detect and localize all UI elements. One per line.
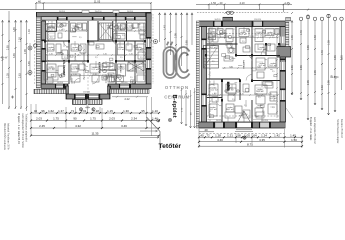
right column circles — [299, 14, 343, 20]
svg-text:2,5: 2,5 — [52, 69, 55, 71]
svg-text:12,5 m2: 12,5 m2 — [71, 69, 79, 71]
svg-text:nettó alapterület 55,04 m2: nettó alapterület 55,04 m2 — [313, 117, 316, 144]
svg-text:OTTHON: OTTHON — [165, 85, 189, 90]
ticks row y=120.5 — [30, 120, 160, 122]
svg-text:95: 95 — [141, 109, 145, 113]
twin washbasins left plan — [112, 76, 124, 82]
svg-text:1,20: 1,20 — [118, 29, 122, 31]
left plan bathroom fixtures center-bottom — [101, 64, 115, 83]
svg-text:2.85: 2.85 — [7, 45, 10, 50]
left plan top insulation hatch band — [36, 12, 151, 16]
drain symbol near corner — [168, 118, 171, 121]
svg-text:1.05: 1.05 — [244, 133, 250, 137]
svg-text:MEGJEGYZÉS szerkezetek: MEGJEGYZÉS szerkezetek — [3, 123, 6, 150]
svg-text:90/150: 90/150 — [59, 11, 65, 13]
right rows connecting verticals — [199, 129, 302, 148]
svg-text:1.62: 1.62 — [48, 109, 54, 113]
svg-text:1.37: 1.37 — [58, 109, 64, 113]
svg-text:3.65: 3.65 — [13, 53, 16, 58]
right plan counter strip — [208, 29, 280, 120]
left plan kitchen counter strip — [46, 23, 145, 81]
left plan furniture inner details — [47, 27, 145, 76]
left plan extra fixtures — [61, 25, 113, 77]
svg-text:NAPPALI: NAPPALI — [119, 64, 122, 73]
svg-text:2,5: 2,5 — [272, 71, 275, 73]
svg-text:1.18: 1.18 — [93, 109, 99, 113]
svg-text:150/240: 150/240 — [121, 82, 128, 84]
svg-text:10,2 m2: 10,2 m2 — [239, 34, 247, 36]
svg-text:1.45: 1.45 — [290, 133, 296, 137]
ticks row y=128 — [30, 127, 160, 129]
svg-text:2,5: 2,5 — [242, 41, 245, 43]
right plan furniture — [209, 29, 280, 117]
right plan top wall band — [199, 21, 285, 27]
svg-text:1.45: 1.45 — [284, 1, 290, 5]
left plan porch box 1 — [73, 100, 87, 105]
svg-text:1,20: 1,20 — [60, 53, 64, 55]
svg-text:2,5: 2,5 — [226, 109, 229, 111]
svg-text:Tetőtéri hasznos alapterület: Tetőtéri hasznos alapterület — [24, 114, 27, 142]
left plan interior walls — [46, 13, 147, 84]
left plan bottom-left insulation ladder strip — [34, 89, 66, 93]
left rows labels — [34, 109, 158, 136]
svg-text:12,5 m2: 12,5 m2 — [117, 49, 125, 51]
center axis circle — [150, 40, 158, 44]
svg-text:FÜRDŐ: FÜRDŐ — [74, 53, 77, 61]
svg-text:B épület - 2 sz. lakás: B épület - 2 sz. lakás — [309, 117, 312, 141]
svg-text:3.85: 3.85 — [186, 40, 189, 45]
right plan bottom dim rows — [199, 132, 302, 146]
svg-text:11.35: 11.35 — [91, 132, 98, 136]
svg-text:1.46: 1.46 — [152, 117, 158, 121]
svg-text:Tetőtér: Tetőtér — [159, 143, 182, 150]
svg-text:2,5: 2,5 — [212, 61, 215, 63]
svg-text:B.ép.:: B.ép.: — [331, 75, 340, 79]
svg-text:2.85: 2.85 — [291, 65, 294, 70]
main horizontal datum line — [0, 9, 345, 11]
svg-text:1.50: 1.50 — [314, 35, 317, 40]
svg-text:2,5: 2,5 — [64, 57, 67, 59]
left column rotated number labels — [7, 27, 31, 78]
svg-text:2,5: 2,5 — [258, 97, 261, 99]
porch drain symbol 1 — [79, 108, 82, 111]
right plan extra fixtures — [219, 30, 272, 92]
svg-text:40: 40 — [34, 109, 38, 113]
svg-text:KONYHA: KONYHA — [98, 62, 102, 73]
svg-text:210/240: 210/240 — [83, 92, 90, 94]
svg-text:4.10: 4.10 — [239, 1, 245, 5]
left plan left insulation strip — [36, 17, 40, 88]
svg-text:1,20: 1,20 — [250, 36, 254, 38]
svg-text:4.32: 4.32 — [75, 124, 81, 128]
svg-text:1,20: 1,20 — [59, 29, 63, 31]
svg-text:1.28: 1.28 — [215, 133, 221, 137]
right plan top dimension line — [196, 3, 292, 12]
ticks row y=135.5 — [30, 135, 160, 137]
right plan room label specks — [209, 32, 277, 112]
center rotated labels — [164, 25, 189, 45]
svg-text:90/120: 90/120 — [215, 19, 221, 21]
svg-text:2,5: 2,5 — [110, 37, 113, 39]
wardrobe X box — [128, 62, 144, 71]
svg-text:3.85: 3.85 — [28, 61, 31, 66]
svg-text:2.98: 2.98 — [327, 80, 330, 85]
right column rotated labels — [291, 30, 344, 90]
svg-text:1,20: 1,20 — [93, 74, 97, 76]
porch tiny dims — [85, 107, 90, 108]
right plan dashed attic lines — [207, 27, 281, 122]
svg-text:71: 71 — [71, 109, 75, 113]
svg-text:1,20: 1,20 — [254, 93, 258, 95]
svg-text:12,5 m2: 12,5 m2 — [135, 69, 143, 71]
canopy dashed line below band — [199, 133, 285, 135]
svg-text:10,2 m2: 10,2 m2 — [209, 47, 217, 49]
svg-text:1,20: 1,20 — [240, 93, 244, 95]
right plan door arcs — [216, 43, 267, 106]
svg-text:2.45: 2.45 — [39, 124, 45, 128]
svg-text:2,5: 2,5 — [232, 99, 235, 101]
right plan left wall — [202, 27, 207, 122]
svg-text:2.22: 2.22 — [124, 97, 130, 101]
right column top arrow — [291, 9, 309, 23]
svg-text:2.63: 2.63 — [321, 85, 324, 90]
svg-text:210: 210 — [137, 24, 140, 26]
svg-text:210: 210 — [44, 24, 47, 26]
svg-text:11.05: 11.05 — [94, 0, 101, 4]
svg-text:2,5: 2,5 — [140, 57, 143, 59]
svg-text:2,5: 2,5 — [122, 35, 125, 37]
row connecting verticals — [31, 97, 152, 136]
svg-text:1,20: 1,20 — [49, 29, 53, 31]
svg-text:90: 90 — [73, 117, 77, 121]
svg-text:1.48: 1.48 — [300, 30, 303, 35]
center column ticks — [164, 31, 188, 56]
tick row under bottom-right terrace strip — [112, 96, 148, 98]
svg-text:2,5: 2,5 — [84, 69, 87, 71]
svg-text:150/150: 150/150 — [95, 11, 102, 13]
extra counters left plan — [46, 26, 145, 80]
svg-text:58: 58 — [237, 133, 241, 137]
left plan top dimension line — [35, 2, 152, 12]
svg-text:3.85: 3.85 — [307, 45, 310, 50]
sheet corner line — [147, 117, 161, 150]
right plan bottom wall band — [199, 122, 285, 128]
svg-text:1.35: 1.35 — [327, 40, 330, 45]
svg-text:1.50: 1.50 — [291, 138, 297, 142]
svg-text:1.48: 1.48 — [321, 50, 324, 55]
svg-text:1,20: 1,20 — [229, 66, 233, 68]
small axis circle near corner — [157, 119, 160, 122]
svg-text:2.85: 2.85 — [340, 55, 343, 60]
svg-text:HÁLÓSZOBA: HÁLÓSZOBA — [62, 60, 65, 75]
svg-text:1.15: 1.15 — [107, 109, 113, 113]
svg-text:120/120: 120/120 — [254, 19, 261, 21]
right plan right wall — [280, 27, 286, 122]
center column top arrows — [159, 13, 194, 15]
svg-text:1.40: 1.40 — [164, 25, 167, 30]
svg-text:1,20: 1,20 — [129, 53, 133, 55]
svg-text:1,20: 1,20 — [73, 74, 77, 76]
svg-text:40–A': 40–A' — [1, 56, 9, 60]
dashed eaves line above right plan — [197, 12, 289, 14]
right plan entry door flaps — [238, 111, 251, 122]
chimney box on top wall — [223, 17, 233, 21]
svg-text:12,5 m2: 12,5 m2 — [47, 49, 55, 51]
svg-text:NAPPALI: NAPPALI — [242, 60, 245, 69]
svg-text:90/150: 90/150 — [57, 82, 63, 84]
left plan porch bay band B — [66, 94, 110, 99]
svg-text:2,5: 2,5 — [130, 77, 133, 79]
svg-text:10,2 m2: 10,2 m2 — [209, 109, 217, 111]
svg-text:KONYHA: KONYHA — [223, 30, 226, 39]
svg-text:2,5: 2,5 — [78, 55, 81, 57]
svg-text:4.40: 4.40 — [217, 138, 223, 142]
porch drain symbol 2 — [92, 108, 95, 111]
svg-text:1.75: 1.75 — [53, 117, 59, 121]
svg-text:3.85: 3.85 — [334, 55, 337, 60]
svg-text:1,20: 1,20 — [138, 29, 142, 31]
svg-text:2.98: 2.98 — [24, 49, 27, 54]
right plan center room furniture — [225, 82, 273, 118]
svg-text:1.10: 1.10 — [152, 109, 158, 113]
right plan stair block — [204, 46, 219, 69]
svg-text:2,5: 2,5 — [244, 105, 247, 107]
right plan door jamb blocks — [202, 21, 286, 128]
svg-text:1,20: 1,20 — [81, 53, 85, 55]
svg-text:40: 40 — [204, 128, 208, 132]
left plan bottom-right insulation ladder strip — [110, 89, 149, 93]
left plan room label specks — [47, 26, 143, 80]
svg-text:2.98: 2.98 — [314, 70, 317, 75]
right plan interior walls — [207, 27, 281, 122]
svg-text:90/120: 90/120 — [216, 120, 222, 122]
watermark logo C glyph — [175, 47, 190, 78]
svg-text:2,5: 2,5 — [79, 37, 82, 39]
left plan porch box 2 — [88, 100, 102, 105]
svg-text:1.50: 1.50 — [211, 1, 217, 5]
right ticks row y=142.5 — [198, 141, 303, 143]
left plan furniture — [47, 23, 146, 83]
right dimension column lines — [292, 14, 342, 120]
svg-text:2.03: 2.03 — [36, 117, 42, 121]
bed bottom-left room — [44, 73, 62, 81]
porch bay side jogs — [66, 86, 69, 94]
left column top arrows — [2, 20, 28, 22]
center column dim lines — [160, 13, 193, 73]
right plan left insulation strip — [196, 21, 199, 128]
left dimension column lines — [3, 11, 27, 111]
svg-text:4.35: 4.35 — [259, 138, 265, 142]
svg-text:10,2 m2: 10,2 m2 — [258, 49, 266, 51]
svg-text:Tetőtéri hasznos alapter.: Tetőtéri hasznos alapter. — [336, 119, 339, 144]
svg-text:2,5: 2,5 — [95, 57, 98, 59]
svg-text:2.98: 2.98 — [307, 80, 310, 85]
svg-text:8.75: 8.75 — [247, 142, 253, 146]
entry steps below — [235, 130, 253, 132]
left plan bottom wall band A (left) — [42, 84, 69, 89]
svg-text:B-épület: B-épület — [171, 95, 177, 118]
svg-text:96: 96 — [41, 109, 45, 113]
left plan door jamb blocks — [42, 17, 152, 99]
extra interior clutter left plan — [47, 21, 144, 84]
interior dashed partition — [48, 21, 50, 41]
svg-text:1,20: 1,20 — [262, 36, 266, 38]
svg-text:1,20: 1,20 — [49, 53, 53, 55]
interior dimension chains left plan — [45, 23, 146, 80]
svg-text:10,2 m2: 10,2 m2 — [226, 90, 234, 92]
svg-text:1.35: 1.35 — [291, 35, 294, 40]
svg-text:10,2 m2: 10,2 m2 — [269, 98, 277, 100]
left axis dashed line — [34, 40, 36, 84]
svg-text:2.85: 2.85 — [300, 65, 303, 70]
svg-text:2.98: 2.98 — [175, 33, 178, 38]
small room dividers top-left — [46, 20, 57, 32]
extra interior clutter right plan — [209, 27, 277, 122]
dashed line right of right wall — [152, 14, 154, 84]
tiny opening labels along top band left plan — [44, 11, 140, 94]
svg-text:B épület - 1 sz. lakás 55,04: B épület - 1 sz. lakás 55,04 — [17, 114, 20, 145]
right plan furniture inner details — [210, 31, 275, 107]
svg-text:12,5 m2: 12,5 m2 — [91, 69, 99, 71]
svg-text:hasznos 35,04 m2: hasznos 35,04 m2 — [340, 119, 342, 138]
axis circle pair top of right plan — [225, 11, 234, 14]
right plan right insulation strip — [286, 22, 289, 47]
label box above band — [82, 10, 89, 13]
svg-text:1.21: 1.21 — [227, 133, 233, 137]
svg-text:2,5: 2,5 — [50, 37, 53, 39]
svg-text:64: 64 — [253, 133, 257, 137]
watermark logo O glyph — [164, 42, 177, 78]
left plan bottom wall band C (right) — [108, 84, 151, 89]
svg-text:10,2 m2: 10,2 m2 — [210, 90, 218, 92]
left plan right wall — [146, 13, 151, 84]
left plan bottom dim rows — [31, 113, 159, 136]
right ticks row y=138 — [198, 136, 303, 138]
svg-text:72: 72 — [206, 133, 210, 137]
svg-text:3.46: 3.46 — [121, 124, 127, 128]
svg-text:1,20: 1,20 — [212, 93, 216, 95]
svg-text:10,2 m2: 10,2 m2 — [266, 34, 274, 36]
right plan fridge column — [208, 33, 293, 118]
small cross marker — [11, 96, 14, 99]
svg-text:1.85: 1.85 — [13, 27, 16, 32]
small dim cluster right of corner — [181, 88, 196, 128]
svg-text:1.50: 1.50 — [19, 37, 22, 42]
svg-text:2.63: 2.63 — [19, 73, 22, 78]
svg-text:1.35: 1.35 — [7, 73, 10, 78]
entry drain symbol — [243, 136, 246, 139]
svg-text:1.01: 1.01 — [81, 109, 87, 113]
svg-text:nettó alapterület 55,04 m2 Tet: nettó alapterület 55,04 m2 Tetőtér — [21, 114, 24, 149]
tiny opening labels right plan — [215, 19, 268, 122]
svg-text:1,20: 1,20 — [212, 36, 216, 38]
svg-text:12,5 m2: 12,5 m2 — [135, 49, 143, 51]
right ticks row y=147 — [198, 145, 303, 147]
svg-text:1,20: 1,20 — [103, 53, 107, 55]
right rows labels — [200, 128, 297, 147]
interior dimension chains right plan — [207, 28, 279, 118]
ticks row y=113 — [30, 112, 160, 114]
right column bottom end arrows — [291, 93, 336, 120]
svg-text:falazatok Porotherm 30 N+F: falazatok Porotherm 30 N+F — [7, 123, 10, 150]
svg-text:1,20: 1,20 — [79, 29, 83, 31]
svg-text:40: 40 — [200, 133, 204, 137]
svg-text:2.34: 2.34 — [131, 117, 137, 121]
svg-text:90/150: 90/150 — [127, 11, 133, 13]
svg-text:2.03: 2.03 — [109, 117, 115, 121]
left column ticks — [2, 29, 28, 109]
left plan top solid wall band — [42, 17, 152, 20]
svg-text:1.42: 1.42 — [274, 133, 280, 137]
left plan left wall — [42, 21, 46, 84]
svg-text:2,5: 2,5 — [272, 107, 275, 109]
top-right insulation corner stub — [286, 18, 291, 22]
left plan stair block — [99, 23, 113, 40]
svg-text:1.48: 1.48 — [28, 29, 31, 34]
left column axis circles — [28, 44, 37, 75]
svg-text:1.24: 1.24 — [261, 133, 267, 137]
right plan chimney block on right wall — [277, 47, 291, 58]
right column ticks — [291, 43, 343, 96]
svg-text:1,20: 1,20 — [268, 93, 272, 95]
svg-text:1.75: 1.75 — [90, 117, 96, 121]
svg-text:1.30: 1.30 — [123, 109, 129, 113]
svg-text:2,5: 2,5 — [120, 57, 123, 59]
left plan door arcs — [64, 41, 136, 84]
svg-text:10,2 m2: 10,2 m2 — [269, 65, 277, 67]
svg-text:1,20: 1,20 — [257, 66, 261, 68]
